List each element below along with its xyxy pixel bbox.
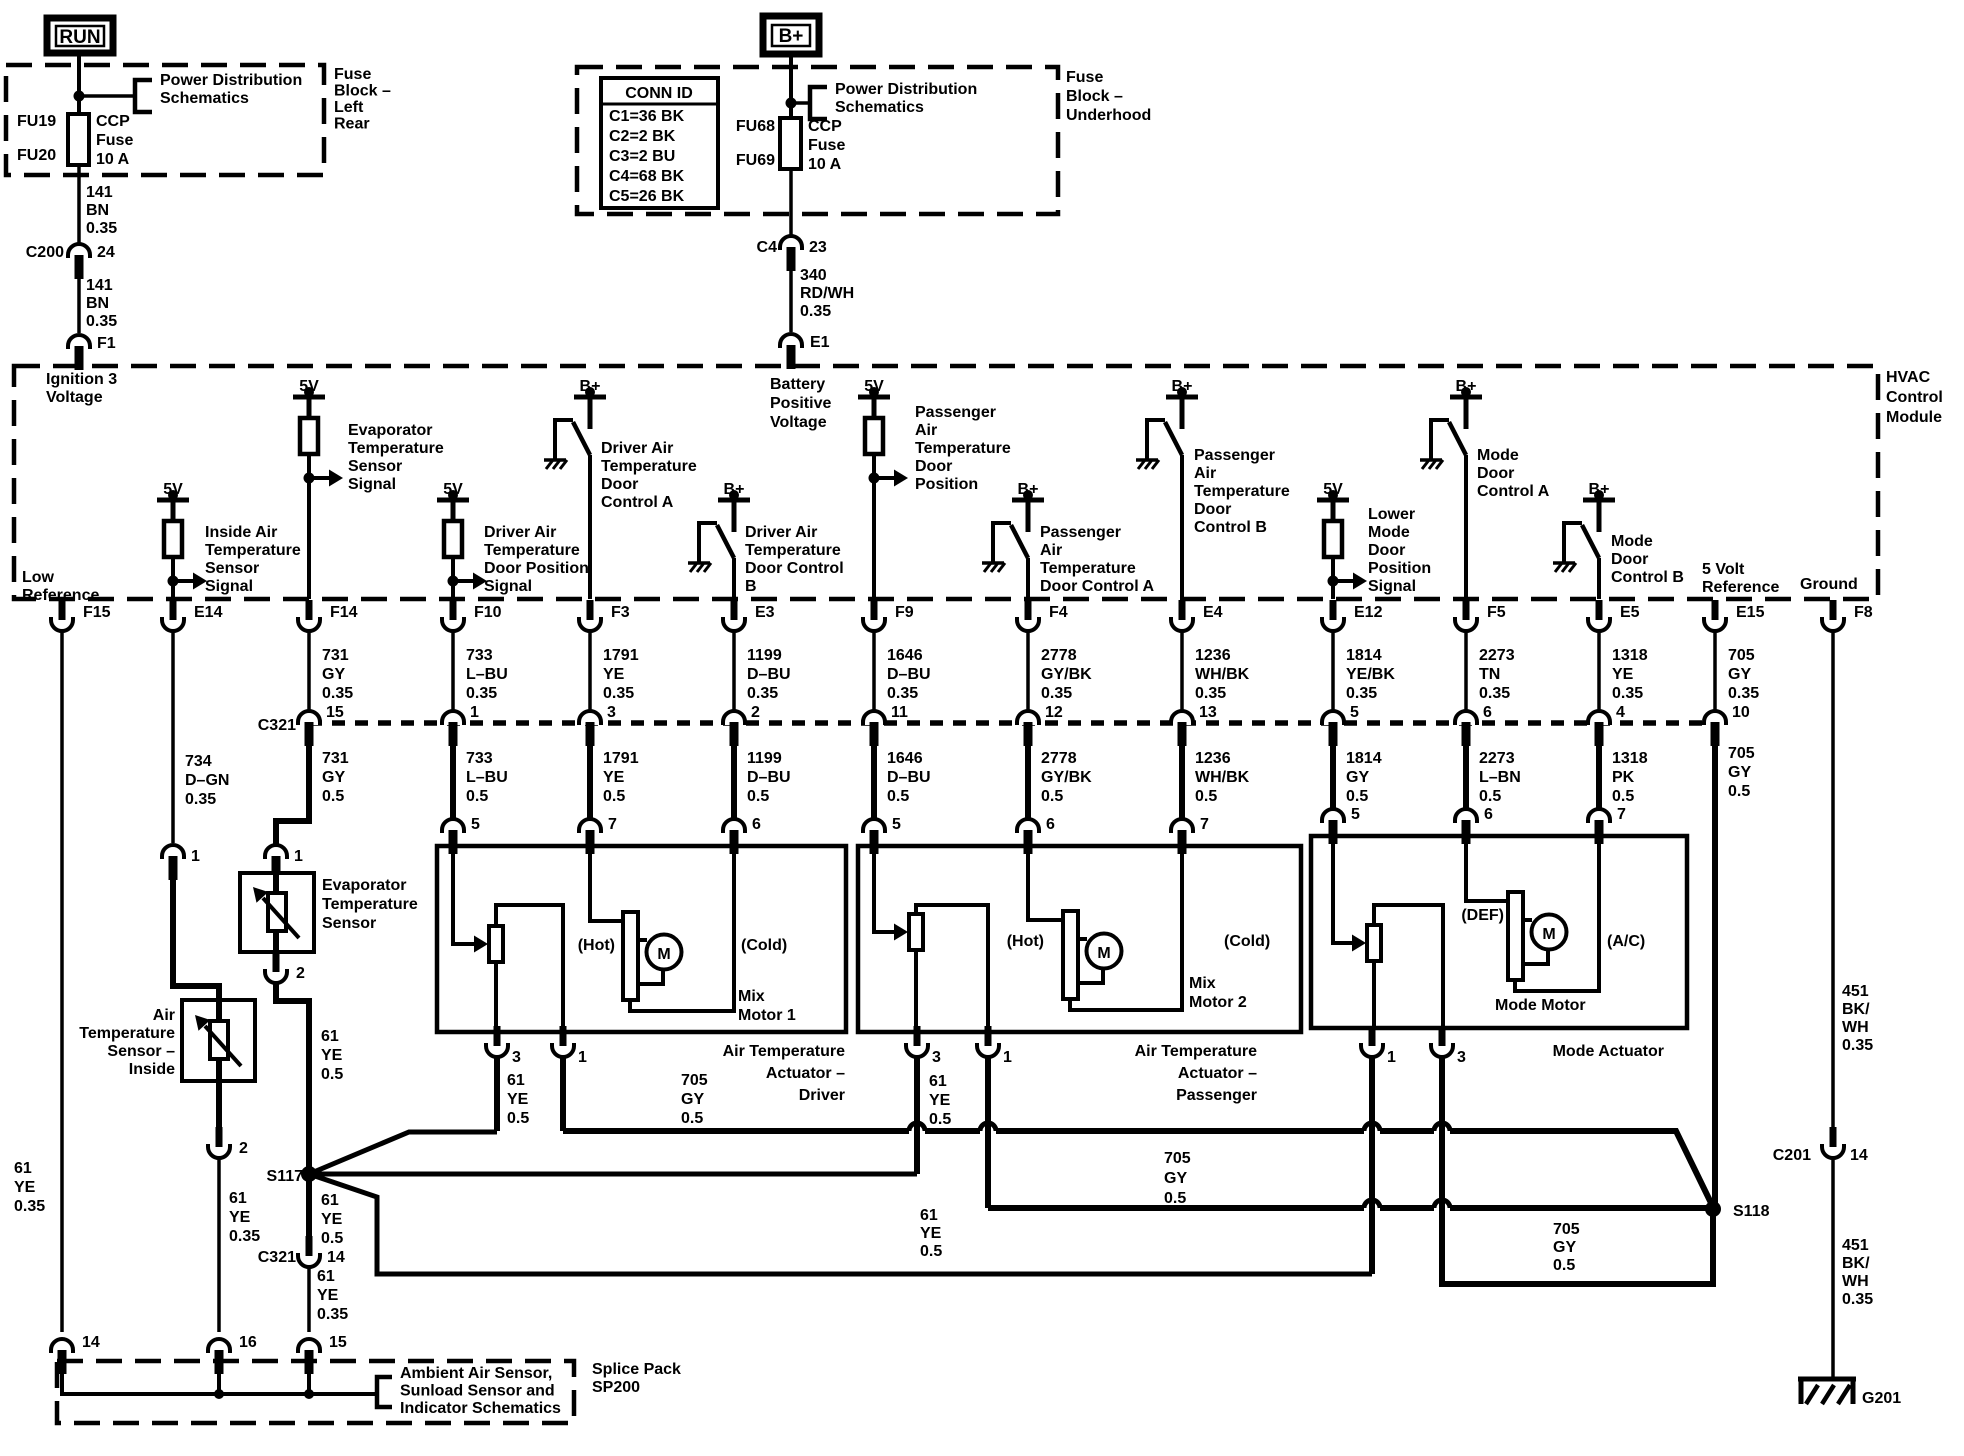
svg-text:Air: Air — [1040, 542, 1062, 559]
svg-text:1: 1 — [1387, 1049, 1396, 1066]
svg-text:Fuse: Fuse — [334, 66, 371, 83]
wire 61 YE 0.5 S117 down to C321 cavity 14 — [309, 1174, 343, 1247]
svg-text:5: 5 — [1351, 806, 1360, 823]
connector pin 1 inside air temperature sensor — [162, 845, 200, 880]
svg-text:RD/WH: RD/WH — [800, 285, 854, 302]
pot low side wire to pin 3 — [494, 962, 498, 1032]
svg-text:CCP: CCP — [96, 113, 130, 130]
svg-text:0.5: 0.5 — [1479, 788, 1501, 805]
bus 705 GY 0.5 middle: passenger pin1 to S118 with hops — [988, 1200, 1713, 1208]
svg-text:5: 5 — [1350, 704, 1359, 721]
svg-text:Temperature: Temperature — [601, 458, 697, 475]
svg-text:E12: E12 — [1354, 604, 1383, 621]
svg-text:GY: GY — [1553, 1239, 1576, 1256]
svg-text:1791: 1791 — [603, 750, 639, 767]
svg-text:D–GN: D–GN — [185, 772, 229, 789]
svg-text:Signal: Signal — [205, 578, 253, 595]
svg-text:Temperature: Temperature — [322, 896, 418, 913]
svg-text:Passenger: Passenger — [915, 404, 996, 421]
splice S118 — [1705, 1201, 1770, 1220]
svg-text:D–BU: D–BU — [887, 666, 931, 683]
svg-text:5: 5 — [892, 816, 901, 833]
connector C4 pin 23 — [780, 236, 802, 271]
svg-text:Temperature: Temperature — [348, 440, 444, 457]
svg-text:0.35: 0.35 — [747, 685, 778, 702]
svg-text:GY/BK: GY/BK — [1041, 666, 1092, 683]
svg-text:0.35: 0.35 — [185, 791, 216, 808]
svg-text:61: 61 — [229, 1190, 247, 1207]
bracket to ambient air sensor schematics — [377, 1377, 392, 1407]
label mode door control A output — [1477, 447, 1550, 500]
svg-text:1318: 1318 — [1612, 750, 1648, 767]
splice S117 — [267, 1166, 317, 1185]
svg-text:E4: E4 — [1203, 604, 1223, 621]
label Ambient Air Sensor, Sunload Sensor and Indicator Schematics — [400, 1365, 561, 1417]
svg-text:0.5: 0.5 — [507, 1110, 529, 1127]
svg-text:Schematics: Schematics — [160, 90, 249, 107]
label 5 Volt Reference — [1702, 561, 1779, 596]
junction dot — [74, 91, 85, 102]
svg-text:Position: Position — [1368, 560, 1431, 577]
svg-text:0.5: 0.5 — [1346, 788, 1368, 805]
wire 1236 WH/BK 0.35 from module pin into C321 — [1182, 631, 1250, 710]
svg-text:C3=2 BU: C3=2 BU — [609, 148, 675, 165]
svg-text:0.5: 0.5 — [321, 1066, 343, 1083]
svg-text:61: 61 — [929, 1073, 947, 1090]
svg-text:Indicator Schematics: Indicator Schematics — [400, 1400, 561, 1417]
label 705 GY 0.5 driver — [681, 1072, 708, 1127]
svg-text:F10: F10 — [474, 604, 502, 621]
svg-text:Signal: Signal — [1368, 578, 1416, 595]
connector E1 into HVAC module — [780, 334, 802, 369]
B+ high-side switch: driver air temperature door control A output — [544, 378, 606, 599]
svg-text:14: 14 — [82, 1334, 100, 1351]
svg-text:2273: 2273 — [1479, 750, 1515, 767]
motor feed wire from pin 590 — [590, 846, 623, 921]
svg-text:C321: C321 — [258, 717, 296, 734]
svg-text:0.35: 0.35 — [466, 685, 497, 702]
svg-text:0.5: 0.5 — [747, 788, 769, 805]
svg-text:C201: C201 — [1773, 1147, 1811, 1164]
svg-text:0.35: 0.35 — [14, 1198, 45, 1215]
label Air Temperature — [1135, 1043, 1258, 1104]
svg-text:1: 1 — [578, 1049, 587, 1066]
svg-text:Driver Air: Driver Air — [484, 524, 556, 541]
svg-text:RUN: RUN — [59, 27, 100, 48]
svg-text:M: M — [1097, 945, 1110, 962]
svg-text:Block –: Block – — [334, 83, 391, 100]
svg-text:F3: F3 — [611, 604, 630, 621]
svg-text:14: 14 — [327, 1249, 345, 1266]
svg-text:Power Distribution: Power Distribution — [160, 72, 302, 89]
svg-text:Underhood: Underhood — [1066, 107, 1151, 124]
wire 1646 D&#8211;BU 0.35 from module pin into C321 — [874, 631, 931, 710]
wire mode pin 3 705 GY 0.5 down right and up to S118 — [1442, 1058, 1713, 1284]
svg-text:FU19: FU19 — [17, 113, 56, 130]
svg-text:734: 734 — [185, 753, 212, 770]
mix motor bar+rotor in passenger air temperature — [1063, 911, 1122, 999]
svg-text:Ambient Air Sensor,: Ambient Air Sensor, — [400, 1365, 552, 1382]
connector C201 pin 14 — [1773, 1127, 1868, 1164]
driver air temperature actuator output pin 1 — [552, 1026, 587, 1066]
svg-text:Mode: Mode — [1368, 524, 1410, 541]
svg-text:1199: 1199 — [747, 750, 782, 767]
svg-text:0.5: 0.5 — [681, 1110, 703, 1127]
wire F14 branch jog to evaporator sensor — [276, 816, 309, 844]
connector C321 cavity 2 — [723, 704, 760, 746]
CONN ID table — [601, 78, 718, 208]
svg-text:BK/: BK/ — [1842, 1001, 1870, 1018]
svg-text:2: 2 — [751, 704, 760, 721]
svg-text:Module: Module — [1886, 409, 1942, 426]
svg-text:6: 6 — [1484, 806, 1493, 823]
svg-text:YE/BK: YE/BK — [1346, 666, 1395, 683]
svg-text:HVAC: HVAC — [1886, 369, 1931, 386]
svg-text:C2=2 BK: C2=2 BK — [609, 128, 676, 145]
module pin F5 — [1455, 600, 1506, 631]
svg-text:Voltage: Voltage — [46, 389, 103, 406]
svg-text:Reference: Reference — [1702, 579, 1779, 596]
label Air Temperature Sensor - Inside — [79, 1007, 175, 1078]
wire 1814 YE/BK 0.35 from module pin into C321 — [1333, 631, 1395, 710]
driver air temperature actuator output pin 3 — [486, 1026, 521, 1066]
svg-text:E15: E15 — [1736, 604, 1765, 621]
label passenger air temp door position driver — [915, 404, 1011, 493]
label (DEF) — [1461, 907, 1504, 924]
svg-text:61: 61 — [317, 1268, 335, 1285]
svg-text:F9: F9 — [895, 604, 914, 621]
svg-text:1: 1 — [191, 848, 200, 865]
svg-text:0.5: 0.5 — [1164, 1190, 1186, 1207]
svg-text:YE: YE — [321, 1211, 343, 1228]
actuator input connector pin 5 at x=453 — [442, 816, 480, 854]
svg-text:451: 451 — [1842, 983, 1869, 1000]
5V pull-up resistor: passenger air temp door position driver — [858, 378, 908, 599]
5V pull-up resistor: driver air temp door position signal driver — [437, 481, 487, 599]
wire 705 GY 0.5 passenger pin 1 down to bus — [985, 1058, 991, 1208]
module pin F10 — [442, 600, 502, 631]
svg-text:Control A: Control A — [601, 494, 674, 511]
label C321 — [258, 717, 296, 734]
bus 61 YE 0.5 from S117 to mode pin1 (lower) — [309, 1174, 1372, 1274]
svg-text:141: 141 — [86, 277, 113, 294]
svg-text:B+: B+ — [779, 26, 804, 47]
svg-text:705: 705 — [1728, 745, 1755, 762]
label (A/C) — [1607, 933, 1645, 950]
svg-text:(Cold): (Cold) — [1224, 933, 1270, 950]
svg-text:Sensor: Sensor — [205, 560, 259, 577]
svg-text:GY: GY — [1728, 666, 1751, 683]
wire to Power Distribution bracket — [791, 101, 810, 105]
svg-text:Driver Air: Driver Air — [601, 440, 673, 457]
svg-text:1: 1 — [294, 848, 303, 865]
connector C321 cavity 1 — [442, 704, 479, 746]
svg-text:Actuator –: Actuator – — [766, 1065, 845, 1082]
svg-text:2: 2 — [296, 965, 305, 982]
svg-text:61: 61 — [321, 1192, 339, 1209]
svg-text:15: 15 — [326, 704, 344, 721]
potentiometer element in driver air temperature — [489, 926, 503, 962]
svg-text:Air: Air — [915, 422, 937, 439]
5V pull-up resistor: evaporator temperature sensor signal driver — [293, 378, 343, 599]
svg-text:YE: YE — [929, 1092, 951, 1109]
module pin F3 — [579, 600, 630, 631]
pot low side wire to pin 3 — [914, 950, 918, 1032]
module pin F15 — [51, 600, 111, 631]
svg-text:Door: Door — [1611, 551, 1648, 568]
svg-text:61: 61 — [14, 1160, 32, 1177]
5V pull-up resistor: inside air temperature sensor signal driver — [157, 481, 207, 599]
B+ high-side switch: passenger air temperature door control B output — [1136, 378, 1198, 599]
svg-text:Evaporator: Evaporator — [322, 877, 406, 894]
svg-text:(Hot): (Hot) — [1007, 933, 1044, 950]
motor return wire to pin 1182 — [1070, 846, 1182, 1010]
actuator input connector pin 7 at x=590 — [579, 816, 617, 854]
svg-text:E3: E3 — [755, 604, 775, 621]
wire E14 734 D-GN 0.35 — [173, 631, 229, 843]
svg-text:E1: E1 — [810, 334, 830, 351]
svg-text:(A/C): (A/C) — [1607, 933, 1645, 950]
svg-text:1: 1 — [470, 704, 479, 721]
svg-text:L–BN: L–BN — [1479, 769, 1521, 786]
svg-text:Driver: Driver — [799, 1087, 845, 1104]
connector C321 cavity 13 — [1171, 704, 1217, 746]
motor return wire to pin 1599 — [1515, 836, 1599, 991]
svg-text:Lower: Lower — [1368, 506, 1415, 523]
mix motor bar+rotor in driver air temperature — [623, 912, 682, 1000]
svg-text:Door: Door — [1477, 465, 1514, 482]
connector pin 1 evaporator temperature sensor — [265, 845, 303, 880]
svg-text:YE: YE — [1612, 666, 1634, 683]
svg-text:GY: GY — [1164, 1170, 1187, 1187]
svg-text:0.35: 0.35 — [317, 1306, 348, 1323]
svg-text:0.35: 0.35 — [1612, 685, 1643, 702]
label Mix — [738, 988, 796, 1024]
5V pull-up resistor: lower mode door position signal driver — [1317, 481, 1367, 599]
label inside air temperature sensor signal driver — [205, 524, 301, 595]
svg-text:0.35: 0.35 — [1842, 1291, 1873, 1308]
label Mix — [1189, 975, 1247, 1011]
wire 731 GY 0.35 from module pin into C321 — [309, 631, 353, 710]
label Splice Pack SP200 — [592, 1361, 681, 1396]
svg-text:0.5: 0.5 — [321, 1230, 343, 1247]
svg-text:731: 731 — [322, 647, 349, 664]
B+ high-side switch: driver air temperature door control B output — [688, 481, 750, 599]
svg-text:Ground: Ground — [1800, 576, 1858, 593]
wire 731 GY 0.5 below C321 — [309, 744, 349, 818]
svg-text:GY: GY — [1728, 764, 1751, 781]
svg-text:Positive: Positive — [770, 395, 831, 412]
potentiometer wiper feed in driver air temperature — [453, 846, 488, 953]
wire sensor to pin 2 — [273, 952, 279, 953]
svg-text:F14: F14 — [330, 604, 358, 621]
svg-text:YE: YE — [920, 1225, 942, 1242]
svg-text:Inside Air: Inside Air — [205, 524, 277, 541]
label driver air temperature door control A output — [601, 440, 697, 511]
svg-text:2273: 2273 — [1479, 647, 1515, 664]
svg-text:Control: Control — [1886, 389, 1943, 406]
svg-text:BN: BN — [86, 295, 109, 312]
svg-text:0.35: 0.35 — [229, 1228, 260, 1245]
svg-text:141: 141 — [86, 184, 113, 201]
svg-text:Mix: Mix — [738, 988, 765, 1005]
svg-text:16: 16 — [239, 1334, 257, 1351]
svg-text:Inside: Inside — [129, 1061, 175, 1078]
svg-text:Signal: Signal — [348, 476, 396, 493]
connector C321 cavity 4 — [1588, 704, 1625, 746]
svg-text:Temperature: Temperature — [484, 542, 580, 559]
wire 2778 GY/BK 0.35 from module pin into C321 — [1028, 631, 1092, 710]
svg-text:YE: YE — [603, 769, 625, 786]
svg-text:(Cold): (Cold) — [741, 937, 787, 954]
RUN ignition switch box — [47, 18, 113, 53]
svg-text:YE: YE — [321, 1047, 343, 1064]
label Evaporator Temperature Sensor — [322, 877, 418, 932]
wire 61 YE 0.35 to splice pack — [219, 1158, 260, 1332]
svg-text:2778: 2778 — [1041, 750, 1077, 767]
svg-text:YE: YE — [507, 1091, 529, 1108]
module pin E5 — [1588, 600, 1640, 631]
svg-text:0.35: 0.35 — [603, 685, 634, 702]
svg-text:Ignition 3: Ignition 3 — [46, 371, 117, 388]
svg-text:0.5: 0.5 — [887, 788, 909, 805]
svg-text:WH: WH — [1842, 1273, 1869, 1290]
B+ high-side switch: mode door control A output — [1420, 378, 1482, 599]
svg-text:Sensor: Sensor — [322, 915, 376, 932]
label 61 YE 0.35 (low reference) — [14, 1160, 45, 1215]
svg-text:E14: E14 — [194, 604, 223, 621]
fuse FU68/FU69 CCP Fuse 10 A — [780, 118, 801, 169]
svg-text:C5=26 BK: C5=26 BK — [609, 188, 685, 205]
svg-text:1646: 1646 — [887, 750, 923, 767]
wire 705 GY 0.5 driver pin 1 to bus — [560, 1058, 566, 1131]
splice pack internal bus — [62, 1367, 377, 1399]
svg-text:705: 705 — [681, 1072, 708, 1089]
svg-text:FU68: FU68 — [736, 118, 775, 135]
svg-text:0.5: 0.5 — [929, 1111, 951, 1128]
mode actuator output pin 1 — [1361, 1026, 1396, 1066]
wire 1199 D&#8211;BU 0.5 below C321 — [734, 744, 791, 818]
connector F1 into HVAC module — [68, 335, 90, 370]
svg-text:F8: F8 — [1854, 604, 1873, 621]
connector C321 cavity 12 — [1017, 704, 1063, 746]
svg-text:0.5: 0.5 — [466, 788, 488, 805]
svg-text:WH: WH — [1842, 1019, 1869, 1036]
svg-text:Actuator –: Actuator – — [1178, 1065, 1257, 1082]
wire 1814 GY 0.5 below C321 — [1333, 744, 1382, 818]
svg-text:12: 12 — [1045, 704, 1063, 721]
svg-text:Door: Door — [915, 458, 952, 475]
svg-text:Position: Position — [915, 476, 978, 493]
svg-text:705: 705 — [1553, 1221, 1580, 1238]
svg-text:0.35: 0.35 — [800, 303, 831, 320]
wire 733 L&#8211;BU 0.35 from module pin into C321 — [453, 631, 508, 710]
wire pin1 down and jog to sensor — [173, 868, 219, 1002]
label passenger air temperature door control B output — [1194, 447, 1290, 536]
wire 141 BN 0.35 upper — [77, 165, 81, 243]
svg-text:1814: 1814 — [1346, 750, 1382, 767]
module pin E3 — [723, 600, 775, 631]
svg-text:F15: F15 — [83, 604, 111, 621]
wire 340 RD/WH 0.35 — [789, 271, 793, 332]
splice pack pin 16 — [208, 1334, 257, 1374]
wire 451 BK/WH 0.35 from module pin F8 — [1833, 631, 1873, 1128]
svg-text:Block –: Block – — [1066, 88, 1123, 105]
connector C321 cavity 15 — [298, 704, 344, 746]
svg-text:6: 6 — [1046, 816, 1055, 833]
svg-text:1: 1 — [1003, 1049, 1012, 1066]
wire 705 GY 0.35 from module pin into C321 — [1715, 631, 1759, 710]
svg-text:23: 23 — [809, 239, 827, 256]
svg-text:1814: 1814 — [1346, 647, 1382, 664]
svg-text:Air Temperature: Air Temperature — [723, 1043, 846, 1060]
label Battery Positive Voltage — [770, 376, 831, 431]
svg-text:0.35: 0.35 — [1842, 1037, 1873, 1054]
svg-text:733: 733 — [466, 750, 493, 767]
connector pin 2 evaporator sensor — [265, 952, 305, 983]
svg-text:Fuse: Fuse — [808, 137, 845, 154]
svg-text:Low: Low — [22, 569, 55, 586]
bus 705 GY 0.5 upper: driver pin1 to S118 with hops — [563, 1123, 1713, 1207]
passenger air temperature actuator box — [858, 846, 1301, 1032]
svg-text:GY: GY — [322, 769, 345, 786]
mode actuator input connector pin 5 at x=1333 — [1322, 806, 1360, 844]
svg-text:Passenger: Passenger — [1194, 447, 1275, 464]
wire 1791 YE 0.5 below C321 — [590, 744, 639, 818]
svg-text:Sensor: Sensor — [348, 458, 402, 475]
evaporator temperature sensor (thermistor) — [240, 873, 314, 952]
splice pack pin 15 — [298, 1334, 347, 1374]
svg-text:2778: 2778 — [1041, 647, 1077, 664]
label Ignition 3 Voltage — [46, 371, 117, 406]
svg-text:WH/BK: WH/BK — [1195, 769, 1250, 786]
svg-text:Door: Door — [1368, 542, 1405, 559]
svg-text:5 Volt: 5 Volt — [1702, 561, 1745, 578]
fuse FU19/FU20 CCP Fuse 10 A — [68, 114, 89, 165]
svg-text:451: 451 — [1842, 1237, 1869, 1254]
svg-text:C4=68 BK: C4=68 BK — [609, 168, 685, 185]
connector C321 cavity 14 — [258, 1236, 345, 1267]
svg-text:Mode Actuator: Mode Actuator — [1553, 1043, 1664, 1060]
connector C321 cavity 3 — [579, 704, 616, 746]
svg-text:D–BU: D–BU — [747, 666, 791, 683]
potentiometer element in mode — [1367, 925, 1381, 961]
air temperature sensor - inside (thermistor) — [182, 1000, 255, 1081]
svg-text:Left: Left — [334, 99, 364, 116]
Fuse Block - Left Rear dashed box — [6, 65, 324, 175]
wire F15 low reference 61 YE 0.35 full column — [60, 631, 64, 1332]
label Air Temperature — [723, 1043, 846, 1104]
svg-text:Sensor –: Sensor – — [107, 1043, 175, 1060]
svg-text:S117: S117 — [267, 1168, 304, 1185]
svg-text:Mix: Mix — [1189, 975, 1216, 992]
svg-text:24: 24 — [97, 244, 115, 261]
svg-text:Air Temperature: Air Temperature — [1135, 1043, 1258, 1060]
svg-text:0.5: 0.5 — [1612, 788, 1634, 805]
pot low side wire to pin 1 — [1372, 961, 1376, 1028]
svg-text:Door Control: Door Control — [745, 560, 844, 577]
svg-text:YE: YE — [14, 1179, 36, 1196]
svg-text:0.5: 0.5 — [1553, 1257, 1575, 1274]
svg-text:YE: YE — [229, 1209, 251, 1226]
svg-text:(DEF): (DEF) — [1461, 907, 1504, 924]
label (Hot) — [1007, 933, 1044, 950]
svg-text:0.35: 0.35 — [1728, 685, 1759, 702]
svg-text:BN: BN — [86, 202, 109, 219]
svg-text:Voltage: Voltage — [770, 414, 827, 431]
svg-text:0.35: 0.35 — [86, 220, 117, 237]
svg-text:Temperature: Temperature — [79, 1025, 175, 1042]
